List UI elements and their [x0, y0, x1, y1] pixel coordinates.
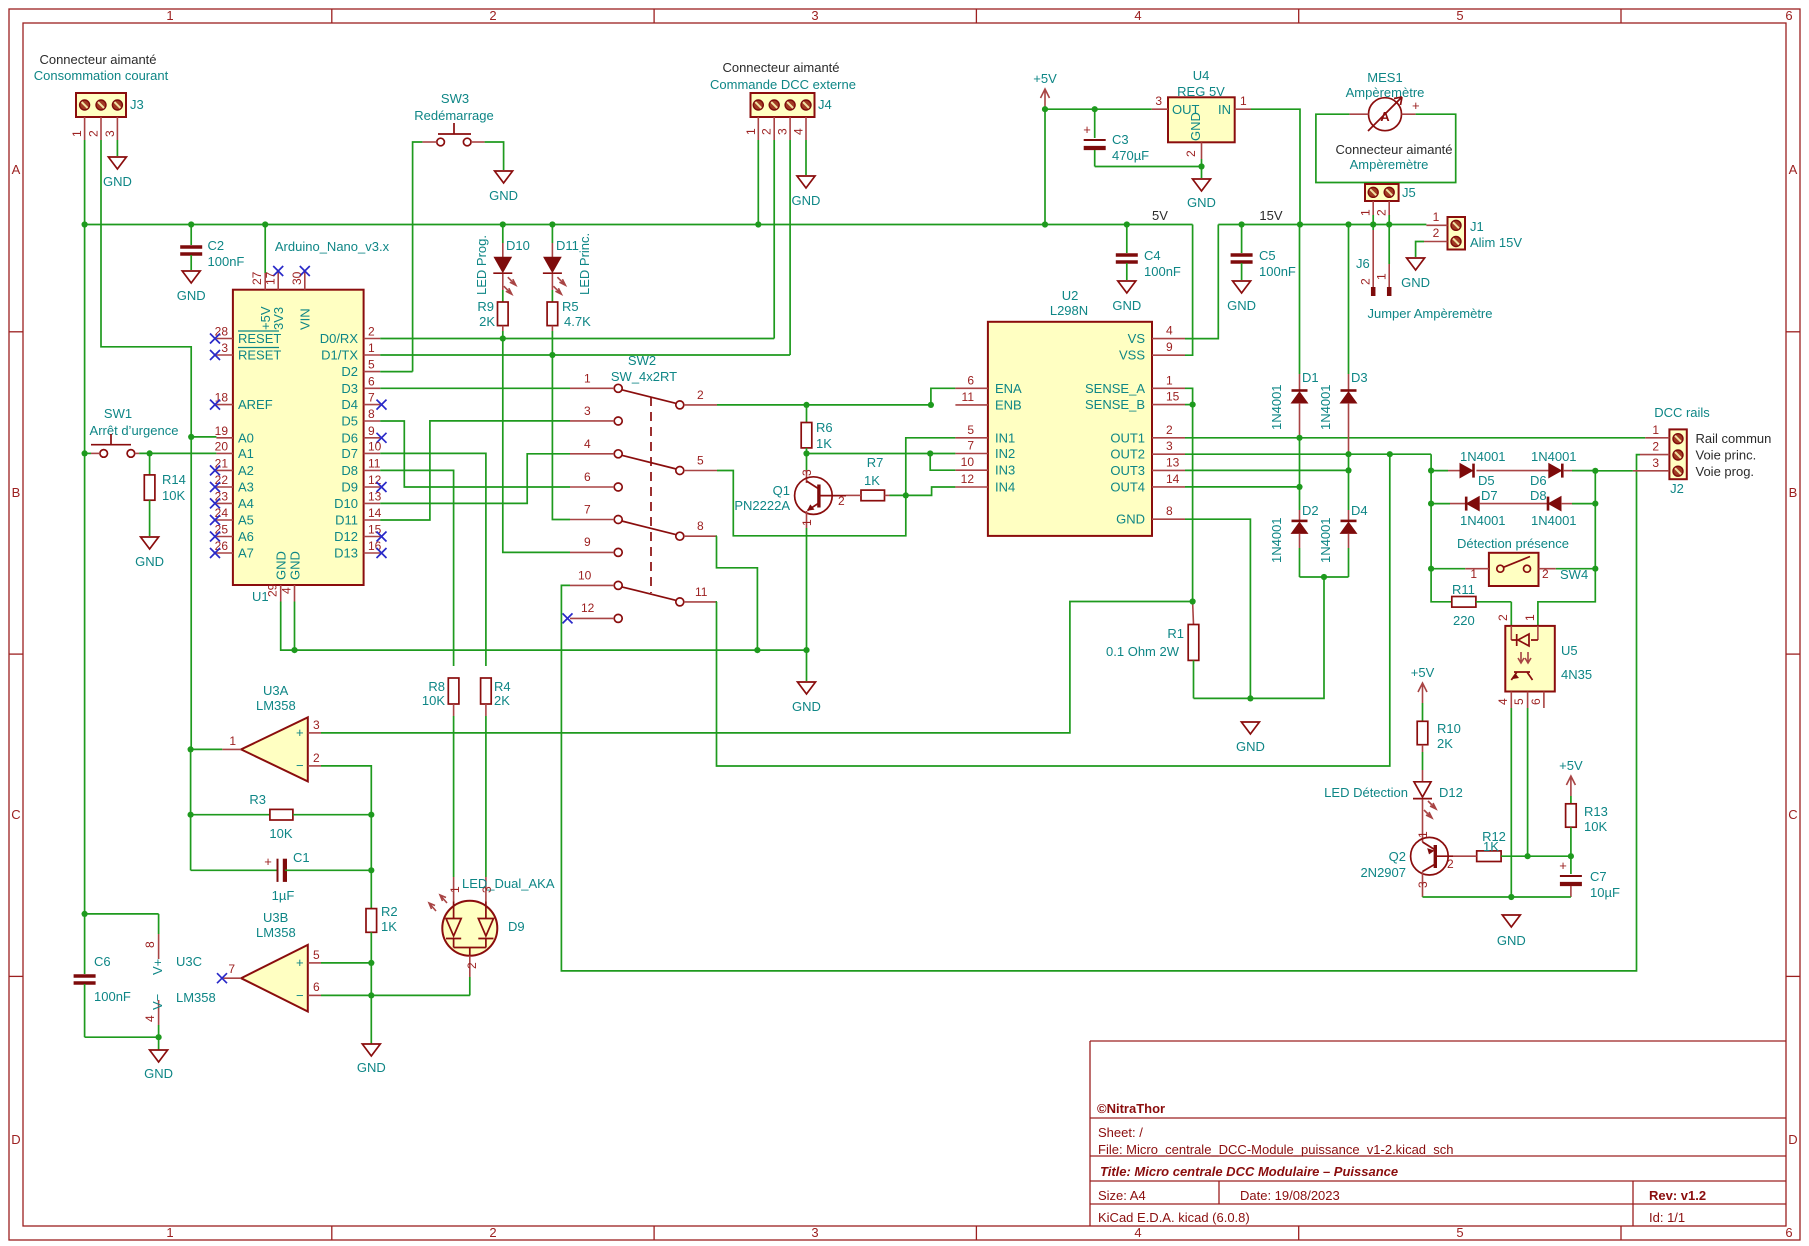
wire sense line to U3A+ [321, 602, 1193, 733]
svg-text:6: 6 [368, 374, 375, 388]
svg-text:D3: D3 [1351, 370, 1368, 385]
svg-text:19: 19 [215, 424, 229, 438]
svg-text:D9: D9 [341, 480, 358, 495]
resistor R2 1K [366, 904, 398, 934]
svg-text:GND: GND [1187, 195, 1216, 210]
svg-text:+: + [1083, 122, 1091, 137]
svg-text:2: 2 [465, 962, 479, 969]
capacitor C5 100nF [1231, 225, 1296, 281]
pin U2.14 OUT4 [1152, 486, 1185, 488]
svg-text:2: 2 [1375, 209, 1389, 216]
svg-text:D11: D11 [335, 513, 358, 528]
svg-text:2K: 2K [479, 314, 495, 329]
switch SW2 pin12 contact (NC) [563, 601, 623, 623]
wire J4 pin3 to D1/TX [789, 140, 791, 355]
IC U2 L298N [988, 288, 1152, 536]
resistor R12 1K [1453, 829, 1571, 862]
pin U1.30 VIN (NC) [304, 272, 306, 290]
wire U3A out to A0 column [191, 748, 223, 750]
wire SW2 throw11 to OUT2/OUT3 net [717, 454, 1390, 766]
svg-text:3V3: 3V3 [271, 307, 286, 330]
svg-text:3: 3 [221, 341, 228, 355]
svg-text:15: 15 [1166, 390, 1180, 404]
diode D8 1N4001 [1530, 488, 1595, 528]
svg-text:1: 1 [166, 1225, 173, 1240]
diode D4 1N4001 [1318, 470, 1368, 577]
svg-text:D8: D8 [1530, 488, 1547, 503]
wire SW4 pin1 [1431, 568, 1465, 570]
resistor R4 2K [481, 678, 511, 716]
svg-text:2: 2 [1542, 567, 1549, 581]
svg-text:8: 8 [1166, 504, 1173, 518]
svg-text:6: 6 [1529, 698, 1543, 705]
svg-text:RESET: RESET [238, 348, 281, 363]
svg-text:3: 3 [313, 718, 320, 732]
power pins U3 V+/V- [85, 914, 165, 1037]
pin U2.3 OUT2 [1152, 453, 1185, 455]
svg-text:AREF: AREF [238, 397, 273, 412]
svg-text:DCC rails: DCC rails [1654, 405, 1710, 420]
svg-text:1N4001: 1N4001 [1318, 384, 1333, 430]
svg-text:LM358: LM358 [176, 990, 216, 1005]
pin U1.18 AREF [216, 404, 233, 406]
wire J4 pin2 to D0/RX [773, 140, 775, 339]
wire +5V rail [85, 224, 1193, 226]
svg-text:D5: D5 [1478, 473, 1495, 488]
svg-text:+: + [296, 955, 304, 970]
svg-text:1: 1 [368, 341, 375, 355]
wire SW2 throw2 to ENA/ENB and R6 [717, 404, 931, 406]
svg-text:100nF: 100nF [1259, 264, 1296, 279]
pin U2.5 IN1 [955, 437, 988, 439]
svg-text:3: 3 [1652, 456, 1659, 470]
pin U1.22 A3 [216, 486, 233, 488]
svg-text:2: 2 [489, 1225, 496, 1240]
switch SW2 pin3 contact [570, 404, 622, 425]
pin U1.4 GND [294, 585, 296, 602]
wire D10 to SW2 pole4 [380, 454, 570, 504]
svg-text:C: C [11, 807, 20, 822]
svg-text:5: 5 [1456, 1225, 1463, 1240]
svg-text:12: 12 [581, 601, 595, 615]
svg-text:1N4001: 1N4001 [1531, 513, 1577, 528]
wire D3 to SW2 pole1 [380, 387, 570, 389]
wire J4 pin4 to ground [805, 140, 807, 175]
svg-text:C: C [1788, 807, 1797, 822]
svg-text:4: 4 [792, 128, 806, 135]
svg-text:1µF: 1µF [272, 888, 295, 903]
wire D9 pin2 down to U3B- row [469, 977, 471, 995]
capacitor C4 100nF [1116, 225, 1181, 281]
resistor R6 1K [801, 405, 832, 454]
svg-text:1: 1 [229, 734, 236, 748]
pin U1.11 D8 [364, 469, 381, 471]
svg-text:2: 2 [1433, 226, 1440, 240]
svg-text:GND: GND [1116, 512, 1145, 527]
switch SW1 Arrêt d urgence [90, 406, 179, 457]
svg-text:1K: 1K [816, 436, 832, 451]
ground (Q2/C7) [1502, 915, 1520, 927]
pin U1.15 D12 [364, 536, 381, 538]
svg-text:8: 8 [143, 941, 157, 948]
svg-text:B: B [1789, 485, 1798, 500]
svg-text:J1: J1 [1470, 219, 1484, 234]
wire IN4 jog to IN1 net [906, 487, 956, 495]
pin U1.5 D2 [364, 371, 381, 373]
svg-text:+5V: +5V [1411, 665, 1435, 680]
svg-text:2K: 2K [1437, 736, 1453, 751]
svg-text:B: B [12, 485, 21, 500]
svg-text:1N4001: 1N4001 [1531, 449, 1577, 464]
wire R5/D1 junction down to SW2 pole7 [552, 355, 570, 520]
svg-text:A: A [1789, 162, 1798, 177]
switch SW2 section C [570, 503, 717, 541]
svg-text:2: 2 [368, 325, 375, 339]
svg-text:2: 2 [1166, 423, 1173, 437]
svg-text:Connecteur aimanté: Connecteur aimanté [1335, 142, 1452, 157]
switch SW2 section A [570, 371, 717, 409]
svg-text:GND: GND [1497, 933, 1526, 948]
diode D5 1N4001 [1431, 449, 1549, 488]
svg-text:D1/TX: D1/TX [321, 348, 358, 363]
svg-text:D11: D11 [556, 238, 579, 253]
svg-text:GND: GND [103, 174, 132, 189]
svg-text:SENSE_B: SENSE_B [1085, 397, 1145, 412]
wire D8 to R8 [380, 470, 453, 666]
wire U4 IN to 15V [1251, 109, 1300, 224]
switch SW2 section B [570, 437, 717, 475]
svg-text:OUT2: OUT2 [1110, 447, 1145, 462]
wire 15V rail [1218, 224, 1426, 226]
svg-text:D6: D6 [1530, 473, 1547, 488]
svg-text:2: 2 [87, 130, 101, 137]
svg-text:GND: GND [177, 288, 206, 303]
wire D2 [380, 371, 412, 373]
resistor R1 0.1 Ohm 2W [1106, 602, 1199, 699]
svg-text:9: 9 [1166, 340, 1173, 354]
svg-text:D2: D2 [1302, 503, 1319, 518]
svg-text:8: 8 [368, 407, 375, 421]
pin U1.3 RESET [216, 354, 233, 356]
svg-text:A7: A7 [238, 546, 254, 561]
switch SW2 section D [570, 568, 717, 606]
svg-text:−: − [296, 758, 304, 773]
svg-text:11: 11 [368, 456, 381, 470]
svg-text:3: 3 [800, 469, 814, 476]
pin U2.6 ENA [955, 387, 988, 389]
pin U1.1 D1/TX [364, 354, 381, 356]
svg-text:4: 4 [1496, 698, 1510, 705]
svg-text:1: 1 [1523, 614, 1537, 621]
ground (U2/R1) [1241, 722, 1259, 734]
ground (J4) [797, 176, 815, 188]
pin U2.4 VS [1152, 338, 1185, 340]
capacitor C6 100nF [74, 914, 131, 1037]
svg-text:17: 17 [264, 271, 278, 285]
svg-text:100nF: 100nF [208, 254, 245, 269]
svg-text:100nF: 100nF [1144, 264, 1181, 279]
svg-text:D0/RX: D0/RX [320, 331, 359, 346]
svg-text:2N2907: 2N2907 [1360, 865, 1406, 880]
svg-text:1: 1 [448, 886, 462, 893]
svg-text:C5: C5 [1259, 248, 1276, 263]
svg-text:U2: U2 [1062, 288, 1079, 303]
svg-text:1N4001: 1N4001 [1269, 384, 1284, 430]
svg-text:2: 2 [1359, 278, 1373, 285]
transistor Q2 2N2907 [1360, 822, 1454, 897]
pin U1.28 RESET [216, 338, 233, 340]
wire IN2/IN3 tie [930, 454, 955, 471]
wire SW3 right to ground [485, 142, 504, 170]
resistor R14 10K [144, 453, 186, 536]
svg-text:10K: 10K [269, 826, 292, 841]
wire D0/RX to J4 [380, 338, 774, 340]
svg-text:R9: R9 [477, 299, 494, 314]
ground (R2/U3B) [362, 1044, 380, 1056]
svg-text:10: 10 [578, 568, 592, 582]
svg-text:1: 1 [1359, 209, 1373, 216]
ground (J1) [1407, 258, 1425, 270]
svg-text:C7: C7 [1590, 869, 1607, 884]
svg-text:V+: V+ [150, 959, 165, 975]
svg-text:IN2: IN2 [995, 446, 1015, 461]
svg-text:J4: J4 [818, 97, 832, 112]
op-amp U3B LM358 [217, 910, 321, 1012]
svg-text:A3: A3 [238, 480, 254, 495]
svg-text:1: 1 [584, 371, 591, 385]
wire +5V column to C6/V+ [84, 453, 86, 914]
svg-text:5: 5 [368, 358, 375, 372]
svg-text:1: 1 [744, 128, 758, 135]
pin U1.23 A4 [216, 502, 233, 504]
svg-text:Rev: v1.2: Rev: v1.2 [1649, 1188, 1706, 1203]
ground (Q1) [798, 682, 816, 694]
svg-text:5V: 5V [1152, 208, 1168, 223]
wire SW2 pole10 to Voie princ (J2.2) [561, 455, 1640, 971]
svg-text:3: 3 [1166, 439, 1173, 453]
svg-text:+: + [1559, 858, 1567, 873]
svg-text:13: 13 [1166, 455, 1180, 469]
svg-text:R5: R5 [562, 299, 579, 314]
svg-text:D10: D10 [334, 496, 358, 511]
svg-text:12: 12 [961, 472, 975, 486]
pin U1.2 D0/RX [364, 338, 381, 340]
svg-text:Consommation courant: Consommation courant [34, 68, 169, 83]
switch SW2 pin9 contact [570, 535, 622, 556]
svg-text:7: 7 [967, 439, 974, 453]
resistor R5 4.7K [547, 299, 591, 355]
svg-text:Voie princ.: Voie princ. [1696, 448, 1757, 463]
svg-text:1: 1 [1433, 210, 1440, 224]
svg-text:R1: R1 [1167, 626, 1184, 641]
svg-text:D: D [1788, 1132, 1797, 1147]
svg-text:2: 2 [1496, 614, 1510, 621]
wire OUT4 [1185, 486, 1300, 488]
svg-text:SW3: SW3 [441, 91, 469, 106]
connector J4 [744, 93, 832, 140]
wire SW2 throw8 to ground row [717, 536, 758, 650]
capacitor C2 100nF [180, 225, 244, 271]
svg-text:A4: A4 [238, 496, 254, 511]
svg-text:D9: D9 [508, 919, 525, 934]
pin U2.7 IN2 [955, 453, 988, 455]
svg-text:D1: D1 [1302, 370, 1319, 385]
wire J3 pin1 to +5V rail and down [84, 140, 86, 453]
wire SENSE_A/SENSE_B tie down to R1 [1185, 388, 1193, 601]
svg-text:Détection présence: Détection présence [1457, 536, 1569, 551]
wire +5V to U4 OUT [1045, 108, 1152, 110]
junction SW1/R14/A1 [147, 450, 153, 456]
wire J4 pin1 to +5V rail [757, 140, 759, 225]
svg-text:1K: 1K [864, 473, 880, 488]
svg-text:2: 2 [489, 8, 496, 23]
svg-text:220: 220 [1453, 613, 1475, 628]
svg-text:Ampèremètre: Ampèremètre [1350, 157, 1429, 172]
svg-text:4: 4 [280, 587, 294, 594]
svg-text:6: 6 [584, 470, 591, 484]
svg-text:0.1 Ohm 2W: 0.1 Ohm 2W [1106, 644, 1180, 659]
svg-text:OUT4: OUT4 [1110, 479, 1145, 494]
svg-text:1: 1 [1416, 831, 1430, 838]
svg-text:GND: GND [1112, 298, 1141, 313]
svg-text:U3C: U3C [176, 954, 202, 969]
pin U1.6 D3 [364, 387, 381, 389]
svg-text:LED Détection: LED Détection [1324, 785, 1408, 800]
svg-text:470µF: 470µF [1112, 148, 1149, 163]
pin U2.12 IN4 [955, 486, 988, 488]
wire C6 bottom to V- [85, 1036, 159, 1038]
svg-text:U4: U4 [1193, 68, 1210, 83]
switch SW2 pin6 contact [570, 470, 622, 491]
svg-text:J6: J6 [1356, 256, 1370, 271]
svg-text:SW1: SW1 [104, 406, 132, 421]
svg-text:D6: D6 [341, 430, 358, 445]
svg-text:7: 7 [228, 962, 235, 976]
svg-text:5: 5 [697, 454, 704, 468]
svg-text:D7: D7 [1481, 488, 1498, 503]
svg-text:15V: 15V [1259, 208, 1282, 223]
wire OUT2/OUT3 branch down (left side of bridge) [1431, 454, 1452, 602]
svg-text:Id: 1/1: Id: 1/1 [1649, 1210, 1685, 1225]
wire J1 pin2 to ground [1416, 242, 1424, 258]
svg-text:1: 1 [1652, 423, 1659, 437]
svg-text:Arrêt d’urgence: Arrêt d’urgence [90, 423, 179, 438]
wire U2 GND down [1185, 519, 1250, 698]
svg-text:GND: GND [1188, 112, 1203, 141]
svg-text:8: 8 [697, 519, 704, 533]
svg-text:Jumper Ampèremètre: Jumper Ampèremètre [1368, 306, 1493, 321]
wire SW4 pin2 [1556, 568, 1596, 570]
wire D6/D8 right junction column [1594, 471, 1596, 569]
ground (C2) [182, 271, 200, 283]
pin U2.8 GND [1152, 518, 1185, 520]
svg-text:20: 20 [215, 439, 229, 453]
svg-text:A6: A6 [238, 529, 254, 544]
svg-text:C3: C3 [1112, 132, 1129, 147]
svg-text:LED Princ.: LED Princ. [577, 233, 592, 295]
switch SW4 Détection présence [1457, 536, 1588, 586]
pin U1.14 D11 [364, 519, 381, 521]
svg-text:J2: J2 [1670, 481, 1684, 496]
wire J3 pin2 down jog to A0 [101, 140, 191, 437]
wire D5 to SW2 pin6 [380, 421, 570, 487]
resistor R3 10K [191, 792, 372, 841]
svg-text:1K: 1K [1483, 839, 1499, 854]
svg-text:14: 14 [368, 506, 382, 520]
svg-text:LED Prog.: LED Prog. [474, 235, 489, 295]
svg-text:GND: GND [274, 551, 289, 580]
svg-text:R14: R14 [162, 472, 186, 487]
svg-text:Voie prog.: Voie prog. [1696, 464, 1755, 479]
svg-text:+5V: +5V [1559, 758, 1583, 773]
diode D7 1N4001 [1431, 488, 1548, 528]
capacitor C3 470µF [1083, 109, 1149, 166]
svg-text:SENSE_A: SENSE_A [1085, 381, 1145, 396]
wire J3 pin3 to ground [116, 140, 118, 156]
svg-text:V−: V− [150, 994, 165, 1010]
svg-text:2: 2 [1652, 440, 1659, 454]
ground (U4) [1193, 179, 1211, 191]
svg-text:+5V: +5V [1033, 71, 1057, 86]
svg-text:10K: 10K [162, 488, 185, 503]
wire J2.3 to D5/D6 junction [1595, 470, 1633, 472]
svg-text:C6: C6 [94, 954, 111, 969]
wire OUT3 [1185, 469, 1349, 471]
svg-text:1N4001: 1N4001 [1460, 513, 1506, 528]
svg-text:U3B: U3B [263, 910, 288, 925]
wire Q2 collector / C7 / U5.4 ground row [1423, 896, 1571, 898]
svg-text:11: 11 [695, 585, 708, 599]
svg-text:D12: D12 [334, 529, 358, 544]
svg-text:1: 1 [1375, 273, 1389, 280]
wire R4 to D9 pin3 [485, 716, 487, 877]
svg-text:Date: 19/08/2023: Date: 19/08/2023 [1240, 1188, 1340, 1203]
svg-text:GND: GND [1401, 275, 1430, 290]
svg-text:A2: A2 [238, 463, 254, 478]
svg-text:−: − [296, 988, 304, 1003]
pin U2.10 IN3 [955, 469, 988, 471]
diode D2 1N4001 [1269, 487, 1319, 577]
svg-text:GND: GND [144, 1066, 173, 1081]
svg-text:1N4001: 1N4001 [1318, 517, 1333, 563]
svg-text:J5: J5 [1402, 185, 1416, 200]
svg-text:Alim 15V: Alim 15V [1470, 235, 1522, 250]
svg-text:4: 4 [143, 1015, 157, 1022]
resistor R13 10K [1566, 796, 1608, 856]
svg-text:+: + [264, 854, 272, 869]
svg-text:1: 1 [1470, 567, 1477, 581]
pin U1.25 A6 [216, 536, 233, 538]
svg-text:R3: R3 [249, 792, 266, 807]
svg-text:R8: R8 [428, 679, 445, 694]
jumper J6 [1356, 225, 1389, 297]
svg-text:3: 3 [103, 130, 117, 137]
svg-text:29: 29 [266, 583, 280, 597]
svg-text:9: 9 [584, 535, 591, 549]
svg-text:IN: IN [1218, 102, 1231, 117]
wire U1 GND pins to ground row [281, 602, 807, 651]
wire SW2 throw5 to IN1 [717, 438, 955, 536]
svg-text:GND: GND [792, 699, 821, 714]
svg-text:14: 14 [1166, 472, 1180, 486]
wire R6/IN2 row [807, 453, 931, 455]
svg-text:R10: R10 [1437, 721, 1461, 736]
LED D11 LED Princ. [543, 225, 592, 303]
svg-text:D2: D2 [341, 364, 358, 379]
regulator U4 REG 5V [1152, 68, 1251, 159]
svg-text:27: 27 [250, 271, 264, 285]
svg-text:1K: 1K [381, 919, 397, 934]
